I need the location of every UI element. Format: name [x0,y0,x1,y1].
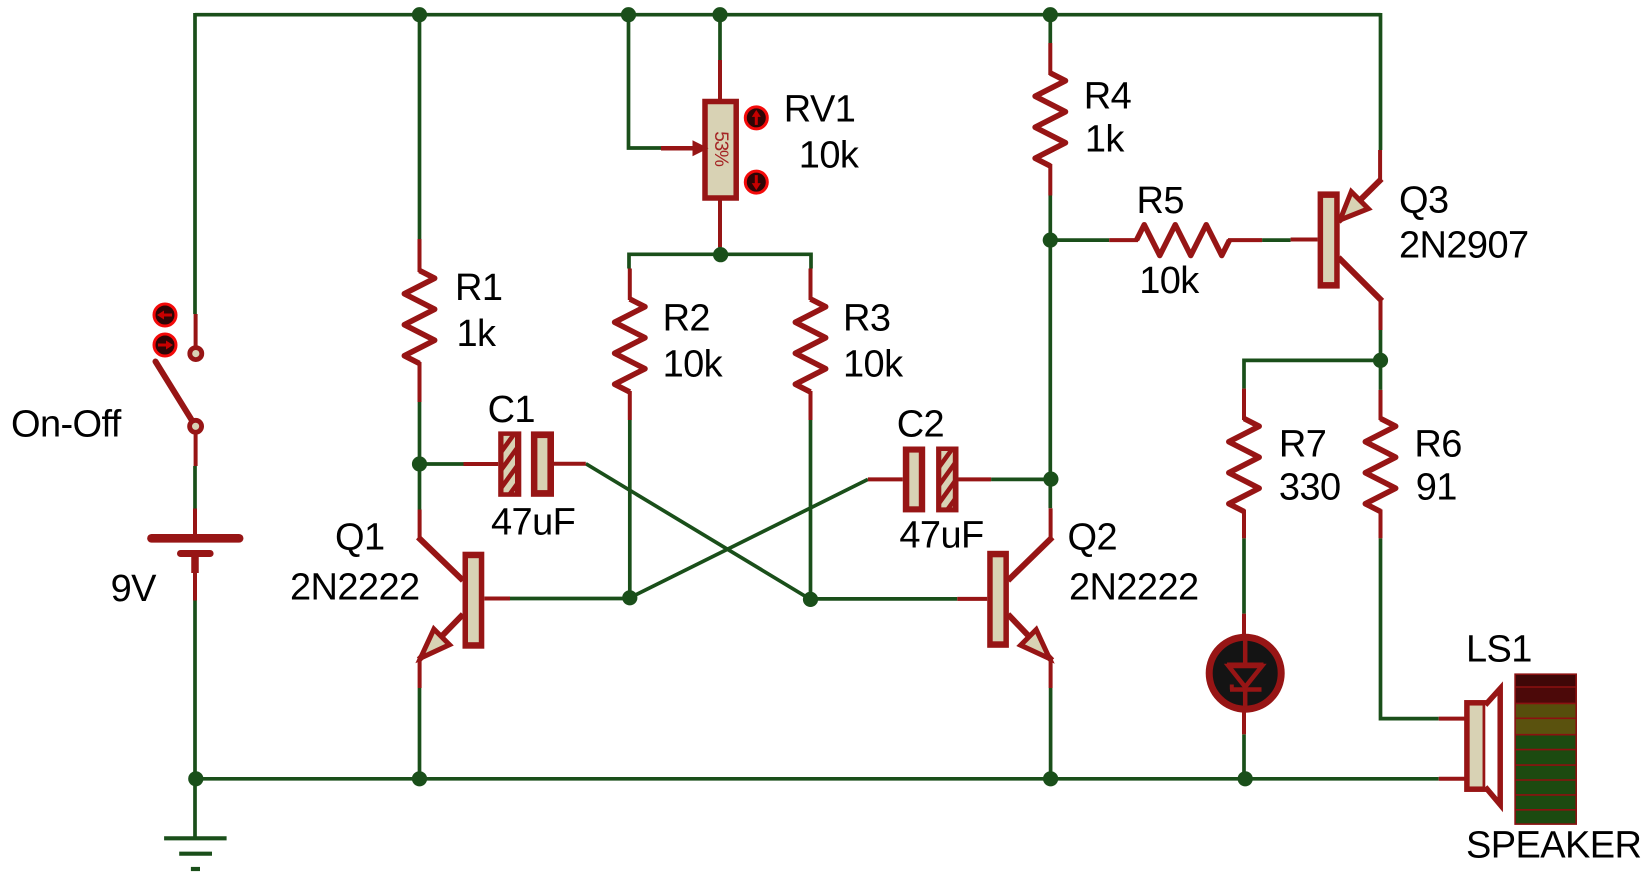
label R2 [663,298,710,340]
svg-text:R2: R2 [663,298,710,340]
label 10k (R5) [1139,260,1200,302]
junction LED rail [1238,771,1253,786]
wire RV1 bottom stub [718,246,722,254]
svg-text:10k: 10k [799,134,860,176]
svg-text:2N2222: 2N2222 [1069,567,1199,609]
wire Q1 base [510,597,630,601]
junction RV1 top rail [712,7,727,22]
transistor Q3 2N2907 (PNP) [1291,150,1382,330]
wire Q2 base [811,597,958,601]
svg-text:R1: R1 [455,267,502,309]
wire LED to rail [1242,734,1246,779]
resistor R5 [1109,225,1262,256]
resistor R2 [615,269,645,421]
wire RV1 wiper feed [629,13,662,148]
switch SW On-Off [154,304,202,466]
label 1k (R4) [1085,119,1126,161]
label LS1 [1466,629,1532,671]
potentiometer RV1 [661,60,767,247]
label R6 [1414,423,1461,465]
svg-text:9V: 9V [111,568,158,610]
label 47uF (C1) [491,502,575,544]
svg-text:1k: 1k [1085,119,1126,161]
label R3 [843,298,890,340]
junction R1-C1 [412,456,427,471]
label Q1 [335,517,385,559]
svg-text:R7: R7 [1279,423,1326,465]
label R4 [1084,76,1132,118]
junction Q2 base node [803,592,818,607]
wire R4 top [1048,13,1052,43]
label R7 [1279,423,1326,465]
wire C1 left stub [420,462,464,466]
resistor R3 [795,269,825,421]
wire R1 to C1 node [418,402,422,510]
wire R6 to speaker [1381,538,1439,718]
junction Q1 base node [622,590,637,605]
resistor R6 [1365,390,1395,538]
junction Q1 emitter rail [412,771,427,786]
wire R2 bottom [628,420,632,598]
speaker LS1 [1439,674,1577,824]
wire mid vertical R4-R5-C2-Q2 [1048,196,1052,509]
label 10k (R3) [843,344,904,386]
label 2N2222 (Q1) [290,567,420,609]
wire Q3 collector link [1379,330,1383,360]
label R1 [455,267,502,309]
wire switch to battery [193,466,197,509]
svg-text:47uF: 47uF [491,502,575,544]
transistor Q2 2N2222 (NPN) [957,508,1052,688]
wire VCC top rail [195,13,1381,17]
junction RV1-R2-R3 [713,247,728,262]
svg-text:91: 91 [1416,466,1457,508]
label Q2 [1068,517,1118,559]
label 10k (RV1) [799,134,860,176]
wire Q3 emitter top [1379,13,1383,150]
wire C1 to Q2 base (cross) [586,464,811,600]
label 10k (R2) [663,344,724,386]
svg-text:Q2: Q2 [1068,517,1118,559]
label On-Off [11,404,122,446]
wire node to R7 branch [1244,360,1381,388]
svg-text:RV1: RV1 [784,89,855,131]
svg-text:R5: R5 [1137,180,1184,222]
label 9V [111,568,158,610]
wire R6 top stub [1379,360,1383,390]
svg-text:2N2907: 2N2907 [1399,225,1529,267]
svg-text:Q3: Q3 [1399,180,1449,222]
junction R4 top rail [1043,7,1058,22]
label R5 [1137,180,1184,222]
ground symbol [164,838,227,869]
junction Q3 collector node [1373,353,1388,368]
svg-text:LS1: LS1 [1466,629,1532,671]
svg-text:2N2222: 2N2222 [290,567,420,609]
junction Q2 emitter rail [1043,771,1058,786]
resistor R1 [404,239,434,402]
wire R5 to Q3 base [1262,238,1291,242]
capacitor C2 47uF [868,432,991,533]
junction R1 top rail [412,7,427,22]
label RV1 [784,89,855,131]
label 47uF (C2) [899,515,983,557]
svg-text:On-Off: On-Off [11,404,122,446]
svg-text:53%: 53% [710,131,731,167]
svg-text:C2: C2 [897,404,944,446]
wire left drop to switch [193,13,197,314]
label SPEAKER [1466,825,1641,867]
junction R4-R5 [1043,233,1058,248]
wire R3 bottom [809,420,813,599]
svg-text:330: 330 [1279,466,1341,508]
wire battery to ground [193,601,197,839]
wire RV1 top stub [718,13,722,61]
svg-text:SPEAKER: SPEAKER [1466,825,1641,867]
resistor R7 [1229,389,1259,539]
battery BT1 9V [152,509,240,601]
label C2 [897,404,944,446]
label 91 (R6) [1416,466,1457,508]
wire R5 left stub [1050,238,1109,242]
svg-text:1k: 1k [457,313,498,355]
wire GND bottom rail [195,777,1439,781]
label 330 (R7) [1279,466,1341,508]
LED D1 [1209,614,1281,735]
svg-text:R3: R3 [843,298,890,340]
wire R7 to LED [1242,538,1246,613]
label Q3 [1399,180,1449,222]
wire C2 right stub [991,478,1051,482]
resistor R4 [1035,43,1065,196]
svg-text:10k: 10k [663,344,724,386]
junction battery-rail [188,771,203,786]
label C1 [488,389,535,431]
wire Q1 emitter bottom [418,688,422,779]
transistor Q1 2N2222 (NPN, mirrored) [418,510,510,689]
label 2N2907 (Q3) [1399,225,1529,267]
capacitor C1 47uF [464,417,586,518]
svg-text:10k: 10k [843,344,904,386]
label 2N2222 (Q2) [1069,567,1199,609]
wire C2 to Q1 base (cross) [630,479,868,597]
svg-text:R4: R4 [1084,76,1132,118]
svg-text:R6: R6 [1414,423,1461,465]
wire Q2 emitter bottom [1049,688,1053,779]
junction wiper top rail [621,7,636,22]
svg-text:10k: 10k [1139,260,1200,302]
wire R1 top [418,15,422,239]
label 1k (R1) [457,313,498,355]
svg-text:Q1: Q1 [335,517,385,559]
svg-text:C1: C1 [488,389,535,431]
svg-text:47uF: 47uF [899,515,983,557]
wire R2-R3 bus [629,254,811,268]
junction C2-mid [1043,472,1058,487]
